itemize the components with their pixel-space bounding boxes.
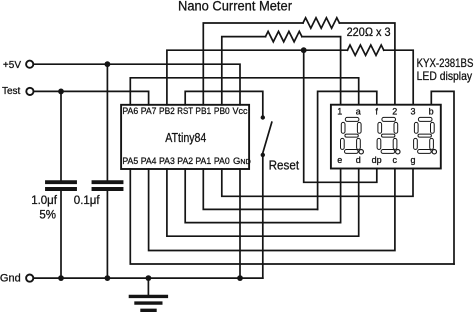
capacitor C1 plates <box>47 182 75 189</box>
wire PB1 to R1 <box>203 23 303 105</box>
svg-text:PA3: PA3 <box>159 156 175 167</box>
wire junction to dp rail <box>304 50 377 182</box>
label C1 value <box>31 195 58 222</box>
junction dot node R3/dp <box>301 47 307 53</box>
display U2 KYX-2381BS box <box>331 105 441 169</box>
junction dot +5V / 0.1uF <box>105 61 111 67</box>
wire Test line to PA7 <box>34 91 149 104</box>
terminal Test <box>2 86 34 97</box>
svg-text:+5V: +5V <box>3 60 21 71</box>
terminal +5V <box>3 60 33 71</box>
wire RST to switch <box>185 91 263 115</box>
svg-text:LED display: LED display <box>417 69 473 83</box>
svg-text:PA2: PA2 <box>177 156 193 167</box>
svg-text:dp: dp <box>372 155 382 165</box>
svg-text:3: 3 <box>410 106 415 116</box>
decimal point 2 <box>396 150 400 154</box>
resistor R1 <box>303 18 339 28</box>
svg-text:ATtiny84: ATtiny84 <box>165 131 206 145</box>
wire PA1 to display f rail <box>203 169 317 209</box>
wire PA0 to display g <box>222 169 413 197</box>
svg-text:Reset: Reset <box>269 157 300 172</box>
svg-text:PA7: PA7 <box>141 106 157 117</box>
resistor R3 <box>347 45 383 55</box>
wire PA5 to display b rail <box>130 169 454 264</box>
capacitor C2 bottom lead <box>106 191 108 278</box>
display bottom pin labels <box>337 155 415 165</box>
svg-text:Test: Test <box>2 86 21 97</box>
svg-text:g: g <box>410 155 415 165</box>
display top pin labels <box>337 106 433 116</box>
svg-text:a: a <box>356 106 361 116</box>
svg-text:PB0: PB0 <box>214 106 230 117</box>
svg-text:PB2: PB2 <box>159 106 175 117</box>
U1 top pin labels <box>122 106 247 117</box>
IC U1 ATtiny84 box <box>121 105 249 169</box>
wire junction to R3 <box>304 49 348 51</box>
svg-text:2: 2 <box>392 106 397 116</box>
7-segment digit 1 <box>341 117 362 153</box>
svg-text:PB1: PB1 <box>195 106 211 117</box>
capacitor C2 0.1uF top lead <box>106 64 108 180</box>
wire PA3 to display d <box>167 169 359 237</box>
wire R1 to display pin 2 <box>339 23 395 105</box>
junction dot IC GND on ground rail <box>237 275 243 281</box>
svg-text:5%: 5% <box>39 210 56 222</box>
junction dot ground symbol on rail <box>146 275 152 281</box>
wire switch to ground rail <box>262 155 264 278</box>
svg-text:c: c <box>393 155 398 165</box>
svg-text:220Ω x 3: 220Ω x 3 <box>347 27 391 39</box>
junction dot C1 on ground rail <box>58 275 64 281</box>
svg-text:RST: RST <box>177 106 193 117</box>
svg-text:f: f <box>375 106 378 116</box>
svg-text:GND: GND <box>233 156 251 167</box>
svg-text:0.1μf: 0.1μf <box>74 195 101 207</box>
svg-text:PA6: PA6 <box>122 106 138 117</box>
svg-text:Gnd: Gnd <box>0 273 21 285</box>
7-segment digit 2 <box>377 117 398 153</box>
wire display pin b over right side <box>431 91 454 264</box>
wire R3 to display pin 3 <box>384 50 413 104</box>
svg-text:d: d <box>356 155 361 165</box>
7-segment digit 3 <box>414 117 435 153</box>
svg-text:e: e <box>337 155 342 165</box>
decimal point 1 <box>359 150 363 154</box>
switch S1 bottom contact <box>261 153 265 157</box>
capacitor C1 1.0uF top lead <box>60 91 62 180</box>
U1 bottom pin labels <box>122 156 250 167</box>
junction dot Test / 1.0uF <box>58 89 64 95</box>
capacitor C1 bottom lead <box>60 191 62 278</box>
terminal Gnd <box>0 273 33 285</box>
wire PA6 to display pin a <box>130 78 358 105</box>
wire PB2 to junction <box>167 50 304 105</box>
switch S1 arm <box>263 122 272 153</box>
svg-text:1: 1 <box>337 106 342 116</box>
svg-text:PA4: PA4 <box>141 156 157 167</box>
junction dot C2 on ground rail <box>105 275 111 281</box>
svg-text:PA0: PA0 <box>214 156 230 167</box>
ground symbol <box>130 278 166 310</box>
svg-text:b: b <box>429 106 434 116</box>
switch S1 (reset) top contact <box>261 115 265 119</box>
svg-text:Vcc: Vcc <box>233 106 248 117</box>
wire PB0 to R2 <box>222 37 266 105</box>
wire +5V rail to Vcc <box>34 64 240 105</box>
wire IC GND pin down <box>239 169 241 278</box>
resistor R2 <box>266 31 302 41</box>
svg-text:1.0μf: 1.0μf <box>31 195 58 207</box>
svg-text:PA5: PA5 <box>122 156 138 167</box>
wire display pin f down <box>318 91 377 209</box>
svg-text:PA1: PA1 <box>195 156 211 167</box>
decimal point 3 <box>432 150 436 154</box>
capacitor C2 plates <box>94 182 122 189</box>
svg-text:Nano Current Meter: Nano Current Meter <box>178 0 292 13</box>
wire PA4 to display c <box>149 169 395 251</box>
wire R2 to display pin 1 <box>302 37 341 105</box>
wire PA2 to display e <box>185 169 340 223</box>
ground rail wire <box>34 277 263 279</box>
